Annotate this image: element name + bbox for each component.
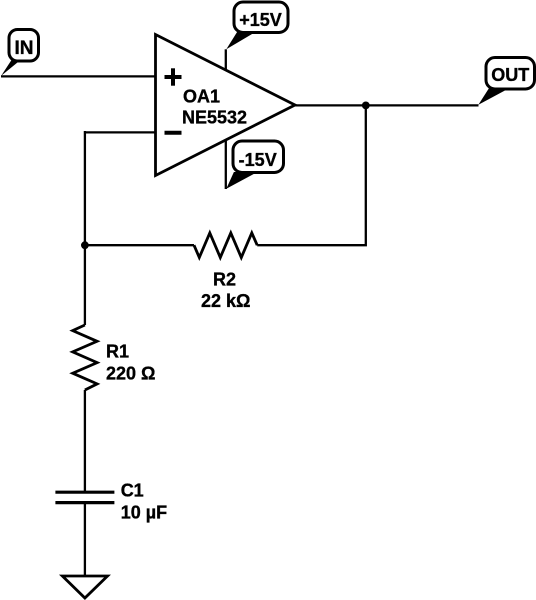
ground [62, 576, 107, 598]
svg-text:R1: R1 [106, 342, 129, 362]
wire op-amp output [295, 104, 479, 106]
wire left vertical (inverting node down to R1) [84, 131, 86, 325]
net flag +15V box [234, 2, 288, 33]
svg-text:22 kΩ: 22 kΩ [201, 291, 250, 311]
op-amp plus input symbol [165, 68, 182, 85]
svg-text:-15V: -15V [239, 150, 277, 170]
net flag OUT box [486, 58, 535, 90]
wire IN to op-amp non-inverting input [1, 75, 156, 77]
junction dot output node [362, 102, 370, 110]
resistor R2 [194, 233, 257, 258]
svg-text:10 µF: 10 µF [121, 503, 167, 523]
wire inverting input from left vertical [85, 131, 156, 133]
net flag IN box [9, 30, 39, 62]
svg-text:OA1: OA1 [183, 87, 220, 107]
net flag -15V tail [226, 172, 257, 189]
net flag IN tail [1, 60, 20, 76]
net flag -15V box [233, 141, 284, 173]
net flag +15V tail [226, 32, 256, 50]
wire +15V supply pin [225, 49, 227, 70]
wire C1 bottom to ground [84, 503, 86, 576]
svg-text:220 Ω: 220 Ω [106, 363, 155, 383]
wire R1 bottom to C1 [84, 390, 86, 492]
junction dot inverting node [81, 241, 89, 249]
svg-text:IN: IN [15, 38, 34, 59]
capacitor C1 [55, 492, 114, 502]
op-amp U1 triangle [156, 35, 296, 176]
svg-text:R2: R2 [213, 270, 236, 290]
svg-text:NE5532: NE5532 [182, 108, 247, 128]
net flag OUT tail [478, 88, 509, 105]
resistor R1 [73, 325, 97, 390]
svg-text:OUT: OUT [491, 65, 529, 85]
wire feedback right vertical [257, 105, 366, 245]
op-amp minus input symbol [165, 131, 182, 135]
wire feedback left horizontal to node [85, 244, 194, 246]
svg-text:C1: C1 [121, 480, 144, 500]
svg-text:+15V: +15V [239, 10, 282, 30]
wire -15V supply pin [225, 140, 227, 189]
